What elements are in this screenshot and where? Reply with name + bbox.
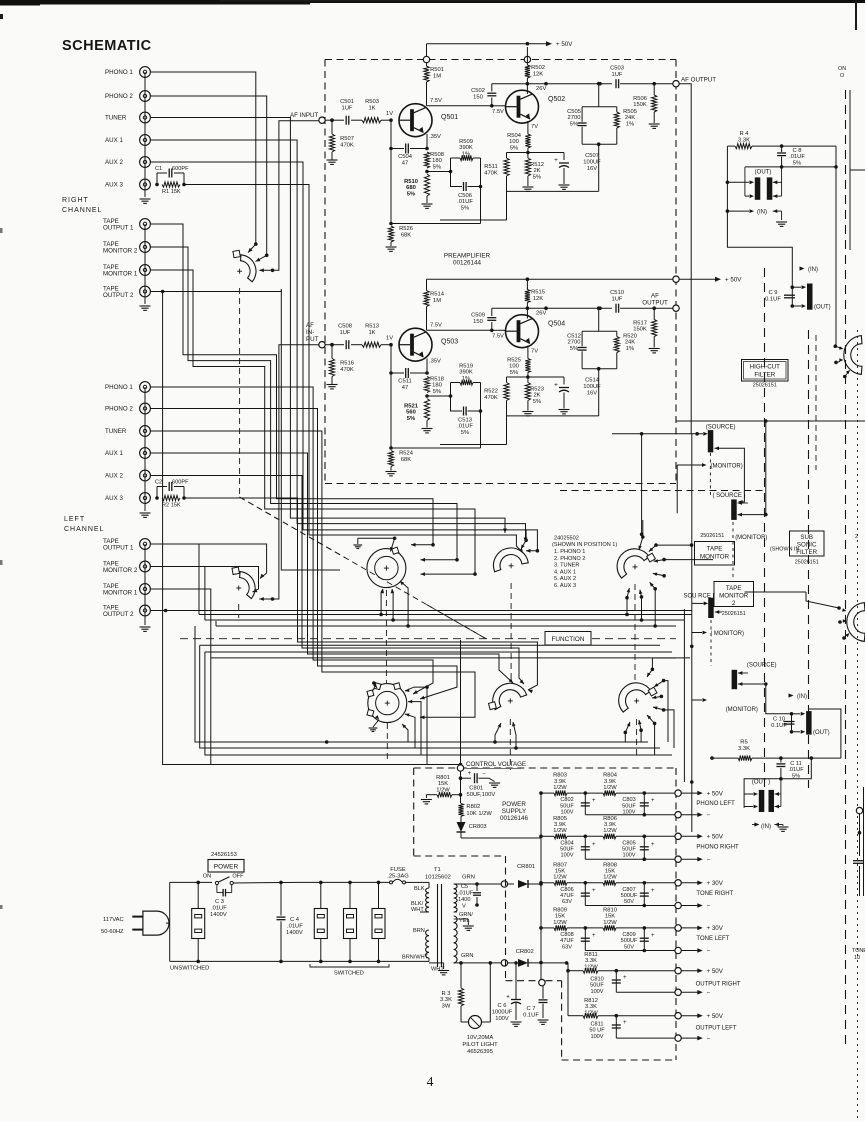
capacitor C502 150 — [471, 84, 496, 106]
svg-text:ON: ON — [203, 874, 211, 880]
wire PHONO 1 right to S1A — [150, 72, 257, 253]
pilot light — [461, 963, 490, 1029]
rotary wafer right edge top (partial) — [844, 336, 862, 375]
svg-text:1/2W: 1/2W — [603, 875, 617, 881]
svg-text:POWER: POWER — [502, 801, 526, 808]
capacitor C806 47UF — [560, 881, 596, 906]
svg-text:+: + — [592, 798, 596, 804]
svg-text:C808: C808 — [560, 932, 573, 938]
rotary wafer S2A (circle) — [367, 547, 406, 587]
svg-text:CONTROL VOLTAGE: CONTROL VOLTAGE — [466, 761, 526, 768]
svg-text:R504: R504 — [507, 133, 522, 139]
switch contact (IN) high-cut — [727, 209, 787, 226]
wire AUX 1 right — [150, 140, 527, 542]
svg-text:C504: C504 — [398, 154, 413, 160]
svg-text:1/2W: 1/2W — [553, 875, 567, 881]
svg-text:16V: 16V — [587, 166, 597, 172]
svg-text:15K: 15K — [438, 781, 448, 787]
resistor R511 470K — [440, 153, 509, 221]
svg-text:C809: C809 — [622, 932, 635, 938]
svg-text:470K: 470K — [484, 395, 498, 401]
svg-text:R802: R802 — [466, 804, 480, 810]
wire power rails — [198, 882, 429, 961]
capacitor C505 2700 5% — [567, 107, 587, 145]
wire collector node right — [492, 82, 612, 86]
svg-text:(SHOWN IN POSITION 1): (SHOWN IN POSITION 1) — [552, 542, 617, 548]
svg-text:5%: 5% — [461, 205, 469, 211]
svg-text:1/2W: 1/2W — [603, 828, 617, 834]
svg-text:50 UF: 50 UF — [589, 1028, 605, 1034]
ground wafer S2B — [369, 715, 379, 731]
svg-text:3.3K: 3.3K — [440, 997, 452, 1003]
label RIGHT CHANNEL — [62, 197, 102, 214]
svg-text:24K: 24K — [625, 115, 635, 121]
output terminal + 30V TONE LEFT — [644, 925, 729, 942]
svg-text:R501: R501 — [430, 67, 444, 73]
capacitor C809 500UF — [621, 926, 655, 952]
wire AUX 2 right — [150, 162, 539, 553]
wire TAPE OUTPUT 1 right — [150, 224, 434, 547]
svg-text:R515: R515 — [531, 290, 545, 296]
switched outlet 2 — [344, 881, 357, 964]
svg-text:R811: R811 — [584, 952, 597, 958]
svg-text:R810: R810 — [603, 907, 617, 913]
contacts wafer right bottom — [745, 592, 850, 640]
svg-text:46526395: 46526395 — [467, 1049, 493, 1055]
svg-text:1/2W: 1/2W — [603, 920, 617, 926]
svg-text:180: 180 — [432, 383, 442, 389]
switch linkage diagonal 2 — [240, 497, 487, 639]
label AF INPUT — [290, 112, 318, 119]
svg-text:R 4: R 4 — [739, 131, 749, 137]
svg-text:R524: R524 — [399, 451, 414, 457]
svg-text:3.9K: 3.9K — [554, 779, 566, 785]
svg-text:R517: R517 — [633, 321, 647, 327]
resistor R4 3.3K — [727, 131, 781, 149]
wire S4B feeds — [625, 658, 676, 755]
svg-text:0.1UF: 0.1UF — [765, 297, 781, 303]
capacitor C507 100UF — [554, 153, 601, 190]
svg-text:1/2W: 1/2W — [553, 785, 567, 791]
switched outlet 1 — [314, 881, 327, 964]
svg-text:5%: 5% — [570, 346, 578, 352]
wire monitor loop right — [715, 446, 745, 503]
+50V supply rail stage2 — [427, 276, 743, 291]
svg-text:R509: R509 — [459, 139, 473, 145]
svg-text:390K: 390K — [459, 370, 473, 376]
svg-text:MONITOR 1: MONITOR 1 — [103, 271, 138, 278]
capacitor C514 100UF — [554, 377, 601, 414]
svg-text:( SOURCE ): ( SOURCE ) — [713, 493, 746, 499]
wire base drop right — [389, 118, 393, 223]
svg-text:R510: R510 — [404, 179, 418, 185]
svg-text:5. AUX 2: 5. AUX 2 — [554, 576, 576, 582]
svg-text:R519: R519 — [459, 364, 473, 370]
svg-text:5%: 5% — [510, 370, 518, 376]
svg-text:25026151: 25026151 — [795, 560, 819, 566]
resistor R518 180 5% — [424, 359, 444, 395]
wire network out left — [507, 367, 617, 416]
svg-text:−: − — [707, 948, 711, 955]
svg-text:GRN: GRN — [462, 874, 475, 880]
svg-text:OUTPUT RIGHT: OUTPUT RIGHT — [696, 982, 741, 988]
output return OUTPUT LEFT — [616, 1035, 710, 1042]
jack OUTPUT 2 left channel — [103, 605, 150, 619]
svg-text:C511: C511 — [398, 379, 411, 385]
wire coupling left — [427, 329, 506, 333]
jack MONITOR 1 right channel — [103, 264, 150, 278]
svg-text:390K: 390K — [459, 145, 473, 151]
svg-text:6. AUX 3: 6. AUX 3 — [554, 583, 576, 589]
switch shaft bars — [710, 453, 733, 666]
bus wire G — [205, 651, 672, 653]
capacitor C11 .01UF 5% — [776, 758, 804, 779]
svg-text:1/2W: 1/2W — [603, 785, 617, 791]
resistor R807 15K 1/2W — [541, 862, 585, 885]
resistor R516 470K — [327, 343, 354, 389]
svg-text:(IN): (IN) — [761, 824, 771, 830]
label AF INPUT stage2 — [306, 322, 319, 343]
svg-text:C509: C509 — [471, 313, 485, 319]
svg-text:R2 15K: R2 15K — [162, 503, 181, 509]
capacitor C808 47UF — [560, 926, 596, 950]
svg-text:5%: 5% — [793, 160, 801, 166]
right tape jack ground bus — [140, 224, 151, 310]
svg-text:10125602: 10125602 — [425, 874, 451, 880]
svg-text:R807: R807 — [553, 862, 567, 868]
jack AUX 2 left channel — [105, 470, 150, 481]
jack AUX 3 left channel — [105, 493, 150, 504]
wire TUNER right — [150, 118, 507, 534]
svg-text:PHONO 2: PHONO 2 — [105, 93, 133, 100]
wire secondary taps — [454, 912, 457, 916]
svg-text:5%: 5% — [461, 430, 469, 436]
board edge dashed vertical 2 — [808, 330, 810, 788]
svg-text:26V: 26V — [536, 311, 546, 317]
wire secondary bottom — [454, 961, 502, 965]
wire AUX 2 left — [150, 476, 524, 685]
svg-text:+: + — [554, 382, 558, 389]
resistor R802 10K 1/2W — [458, 803, 492, 816]
svg-text:SUPPLY: SUPPLY — [502, 808, 527, 815]
label (MONITOR) 3 — [692, 698, 758, 713]
svg-text:5%: 5% — [407, 191, 415, 197]
svg-text:.35V: .35V — [429, 359, 441, 365]
svg-text:2K: 2K — [533, 393, 540, 399]
svg-text:C5: C5 — [461, 884, 468, 890]
svg-text:−: − — [707, 856, 711, 863]
wire PHONO 1 left — [150, 387, 433, 694]
svg-text:AUX 1: AUX 1 — [105, 137, 123, 144]
svg-text:100V: 100V — [495, 1016, 509, 1022]
svg-text:2700: 2700 — [568, 340, 581, 346]
wire network feed left — [582, 306, 617, 331]
svg-text:1%: 1% — [462, 151, 470, 157]
svg-text:47: 47 — [402, 385, 408, 391]
svg-text:HIGH-CUT: HIGH-CUT — [750, 364, 780, 371]
bus wire H — [210, 658, 212, 765]
wire TAPE MONITOR 1 right — [150, 270, 476, 576]
terminal AF OUTPUT left — [642, 293, 679, 312]
svg-text:PUT: PUT — [306, 336, 319, 343]
svg-text:1%: 1% — [626, 346, 634, 352]
capacitor C513 .01UF 5% — [451, 383, 481, 436]
diode CR801 — [501, 864, 541, 888]
contact S2A b2 — [391, 589, 395, 620]
preamplifier board outline 00126144 — [325, 60, 676, 484]
svg-text:50UF: 50UF — [590, 983, 604, 989]
svg-text:600PF: 600PF — [172, 480, 189, 486]
svg-text:3.3K: 3.3K — [585, 958, 597, 964]
jack AUX 3 right channel — [105, 179, 150, 190]
svg-text:63V: 63V — [562, 899, 572, 905]
resistor R507 470K — [327, 118, 354, 164]
wire C6 top — [490, 961, 543, 997]
wire emitter node left — [507, 376, 565, 378]
svg-text:5%: 5% — [510, 145, 518, 151]
svg-text:25026151: 25026151 — [700, 533, 724, 539]
switch bar tape monitor source right — [703, 425, 735, 453]
wire left rail — [170, 882, 212, 961]
capacitor C503 1UF — [610, 66, 654, 89]
switch bar source 4 — [732, 663, 777, 690]
output +50V OUTPUT LEFT — [615, 1013, 737, 1032]
resistor R504 100 5% — [507, 121, 530, 154]
wire control voltage drop — [460, 640, 462, 764]
svg-text:150: 150 — [473, 319, 483, 325]
contact S2B r3 — [408, 700, 421, 755]
capacitor C802 50UF — [560, 791, 596, 815]
svg-text:100V: 100V — [560, 810, 573, 816]
rotary wafer S2B (circle) — [367, 683, 407, 723]
rotary wafer S3A (crescent) — [493, 548, 528, 572]
bus wire C — [216, 624, 676, 628]
output return OUTPUT RIGHT — [616, 989, 710, 996]
svg-text:+ 50V: + 50V — [556, 41, 573, 48]
svg-text:3.9K: 3.9K — [554, 822, 566, 828]
svg-text:63V: 63V — [562, 944, 572, 950]
svg-text:| MONITOR): | MONITOR) — [711, 631, 744, 637]
svg-text:+ 50V: + 50V — [707, 968, 724, 975]
contact S4A t1 — [638, 520, 644, 550]
capacitor C504 47 — [389, 144, 427, 167]
svg-text:C 3: C 3 — [215, 899, 224, 905]
jack OUTPUT 2 right channel — [103, 286, 150, 300]
wire AUX 3 left — [184, 498, 537, 693]
output terminal + 30V TONE RIGHT — [644, 880, 733, 897]
label (IN) C10 — [789, 693, 808, 700]
wire PHONO 2 left — [150, 409, 457, 700]
wire S1A rotor to AF INPUT — [259, 121, 319, 273]
svg-text:150K: 150K — [633, 327, 647, 333]
resistor R2 15K — [155, 495, 186, 508]
svg-text:PHONO 1: PHONO 1 — [105, 69, 133, 76]
label 7.5V Q503 — [430, 323, 442, 329]
label CONTROL VOLTAGE — [466, 761, 526, 768]
AC plug — [132, 911, 169, 935]
label TAPE MONITOR box — [695, 542, 735, 566]
bus wire A — [199, 613, 692, 617]
svg-text:OUTPUT: OUTPUT — [642, 300, 668, 307]
capacitor C510 1UF — [610, 290, 654, 313]
wire CR802 to rows — [565, 961, 570, 1016]
svg-text:GRN: GRN — [461, 953, 473, 959]
rotary wafer right edge bottom (partial) — [847, 603, 865, 642]
svg-text:(OUT): (OUT) — [814, 305, 831, 311]
svg-text:R514: R514 — [430, 292, 445, 298]
contact S2B r4 — [405, 685, 429, 764]
capacitor C805 50UF — [622, 835, 655, 862]
wire loop out left — [391, 409, 482, 448]
transistor Q504 — [506, 315, 566, 348]
svg-text:+ 30V: + 30V — [707, 925, 724, 932]
svg-text:1V: 1V — [386, 111, 393, 117]
svg-text:FUNCTION: FUNCTION — [551, 636, 584, 643]
resistor R521 5% — [404, 394, 432, 433]
jack PHONO 1 right channel — [105, 67, 150, 78]
svg-text:C508: C508 — [338, 324, 352, 330]
svg-text:50UF: 50UF — [622, 803, 636, 809]
resistor R810 15K 1/2W — [585, 907, 644, 930]
resistor R513 1K — [362, 324, 391, 348]
svg-text:+: + — [592, 933, 596, 939]
svg-text:PREAMPLIFIER: PREAMPLIFIER — [444, 253, 491, 260]
svg-text:C 9: C 9 — [768, 290, 777, 296]
svg-text:R502: R502 — [531, 65, 545, 71]
resistor R804 3.9K 1/2W — [585, 773, 644, 796]
svg-text:+: + — [651, 933, 655, 939]
wire TAPE MONITOR 2 right — [150, 247, 458, 562]
svg-text:12K: 12K — [533, 296, 543, 302]
contact S4A r4 — [653, 573, 666, 578]
label (SHOWN IN right edge — [838, 66, 846, 79]
wire emitter node right — [507, 152, 565, 154]
svg-text:R508: R508 — [430, 152, 444, 158]
resistor R803 3.9K 1/2W — [541, 773, 585, 796]
label 7V Q504 — [531, 349, 538, 355]
svg-text:470K: 470K — [484, 171, 498, 177]
switch contact (IN) subsonic — [752, 822, 789, 831]
switch bar tape monitor 2 — [692, 598, 722, 618]
svg-text:R803: R803 — [553, 773, 567, 779]
svg-text:C2: C2 — [155, 480, 162, 486]
svg-text:3.3K: 3.3K — [738, 746, 750, 752]
wire TUNER left — [150, 431, 475, 719]
svg-text:2: 2 — [732, 600, 736, 607]
svg-text:1UF: 1UF — [612, 72, 623, 78]
power supply board outline — [414, 768, 676, 1060]
wire input right — [330, 118, 344, 122]
contact S4B r1 — [647, 668, 654, 678]
power supply left bus — [539, 791, 545, 986]
svg-text:AF: AF — [651, 293, 659, 300]
wire TM2 to subsonic drop — [744, 565, 746, 592]
wire control voltage bus — [460, 778, 462, 803]
svg-text:FUSE: FUSE — [390, 867, 406, 873]
svg-text:OFF: OFF — [232, 874, 244, 880]
svg-text:R523: R523 — [530, 387, 544, 393]
svg-text:5%: 5% — [433, 389, 441, 395]
+50V supply rail stage1 — [423, 41, 573, 66]
svg-text:500UF: 500UF — [621, 893, 638, 899]
left tape jack ground bus — [140, 544, 151, 631]
svg-text:V: V — [462, 904, 466, 910]
svg-text:OUTPUT 2: OUTPUT 2 — [103, 292, 134, 299]
capacitor C804 50UF — [560, 835, 596, 860]
svg-text:C 8: C 8 — [792, 148, 801, 154]
label 7.5V base Q504 — [492, 334, 504, 340]
resistor R506 150K — [633, 82, 673, 129]
svg-text:R809: R809 — [553, 907, 567, 913]
label 117VAC 50-60HZ — [101, 917, 124, 935]
svg-text:600PF: 600PF — [172, 166, 189, 172]
svg-text:AUX 3: AUX 3 — [105, 495, 123, 502]
svg-text:68K: 68K — [401, 457, 411, 463]
contact S4A b1 — [625, 588, 630, 615]
capacitor C810 50UF 100V — [590, 971, 627, 995]
wire collector node left — [492, 306, 612, 310]
capacitor C801 50UF 100V — [459, 771, 500, 798]
label 1V right — [386, 111, 393, 117]
switch bar (OUT) C10 — [792, 711, 830, 736]
switch shaft line S1 — [238, 288, 241, 618]
svg-text:7V: 7V — [531, 349, 538, 355]
svg-text:560: 560 — [406, 410, 416, 416]
svg-text:R806: R806 — [603, 816, 617, 822]
switch contact (OUT) subsonic — [712, 779, 781, 812]
wire PHONO 2 right to S1A — [150, 96, 268, 262]
svg-text:MONITOR: MONITOR — [719, 593, 749, 600]
terminal control voltage — [457, 765, 463, 778]
contacts wafer right top — [834, 344, 851, 378]
svg-text:R525: R525 — [507, 358, 521, 364]
svg-text:−: − — [707, 903, 711, 910]
jack TUNER right channel — [105, 112, 150, 123]
bus wire B — [205, 618, 685, 622]
label 7.5V base Q502 — [492, 109, 504, 115]
contact S4B b1 — [638, 720, 643, 732]
label SUB SONIC FILTER box — [790, 531, 825, 566]
svg-text:BLK: BLK — [414, 886, 425, 892]
svg-text:7V: 7V — [531, 124, 538, 130]
svg-text:C803: C803 — [622, 797, 635, 803]
label 7.5V Q501 — [430, 98, 442, 104]
switch shaft line S3 — [509, 583, 512, 770]
svg-text:15K: 15K — [605, 869, 615, 875]
svg-text:+ 50V: + 50V — [707, 834, 724, 841]
wire loop out right — [391, 185, 482, 224]
page number 4 — [427, 1074, 434, 1089]
svg-text:R5: R5 — [740, 740, 747, 746]
svg-text:BRN/WHT: BRN/WHT — [402, 955, 429, 961]
svg-text:+: + — [651, 888, 655, 894]
svg-text:(SOURCE): (SOURCE) — [747, 663, 777, 669]
svg-text:2: 2 — [855, 534, 858, 540]
wire TAPE OUTPUT 1 left — [150, 544, 266, 579]
capacitor C509 150 — [471, 308, 496, 330]
terminal AF OUTPUT right — [673, 77, 716, 87]
switch linkage diagonal — [240, 497, 487, 639]
svg-text:4: 4 — [427, 1074, 434, 1089]
wire tap right — [427, 170, 452, 174]
svg-text:OUTPUT 2: OUTPUT 2 — [103, 611, 134, 618]
label 25026151 (MONITOR) — [700, 533, 767, 541]
svg-text:100V: 100V — [590, 1034, 603, 1040]
svg-text:C503: C503 — [610, 66, 624, 72]
svg-text:1K: 1K — [368, 106, 375, 112]
tone board right edge partial — [852, 787, 865, 961]
function linkage dashed line — [180, 638, 676, 640]
